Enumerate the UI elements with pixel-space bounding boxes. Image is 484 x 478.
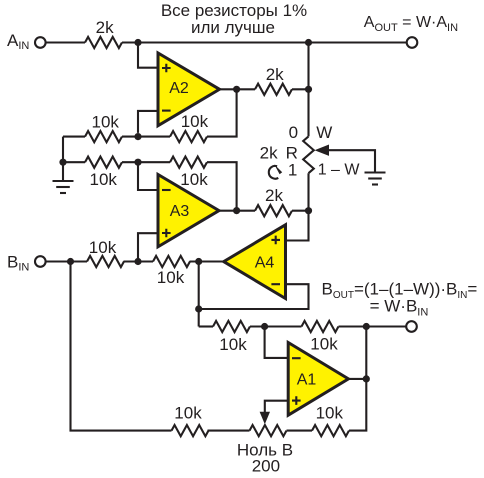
node 2k to pot bottom (305, 207, 312, 214)
terminal A_IN (35, 37, 46, 48)
svg-text:A4: A4 (255, 254, 275, 271)
resistor 2k A2 output to pot top (255, 84, 292, 95)
svg-text:1: 1 (288, 161, 297, 180)
wire A3 + input down to B_IN row (138, 233, 158, 261)
node A2 minus net (134, 133, 141, 140)
wire to B_OUT terminal (339, 325, 407, 327)
wire A4 - feedback loop (199, 284, 309, 309)
wire to A4 output node (190, 260, 224, 262)
wire wiper to ground (329, 150, 376, 172)
svg-text:10k: 10k (91, 112, 119, 131)
svg-text:2k: 2k (260, 143, 278, 162)
node A1 output (363, 375, 370, 382)
wire row2 left (63, 161, 85, 163)
wire left ground leg (62, 137, 64, 181)
wire row2 middle (122, 161, 170, 163)
resistor 10k A1 feedback (302, 321, 339, 332)
op-amp A3 (158, 175, 219, 247)
resistor 2k A3 output to pot bottom (255, 205, 292, 216)
wire B_IN row middle (124, 260, 154, 262)
wire pot terminal 1 down to A4 + input (286, 173, 309, 240)
wire row1 left corner (63, 136, 85, 138)
node A4 feedback (195, 305, 202, 312)
op-amp A2 (158, 53, 220, 126)
op-amp A4 (224, 225, 286, 299)
wire A_IN to R 2k input (46, 41, 85, 43)
svg-text:= W·BIN: = W·BIN (370, 297, 429, 319)
svg-text:1 – W: 1 – W (318, 161, 361, 178)
svg-text:10k: 10k (89, 170, 117, 189)
wire node to A2 + input (138, 43, 158, 68)
node A3 minus net (134, 159, 141, 166)
resistor 10k A3 feedback (170, 157, 207, 168)
svg-text:200: 200 (252, 456, 280, 475)
svg-text:2k: 2k (265, 186, 283, 205)
wire top rail to A_OUT terminal (122, 41, 407, 43)
resistor 10k A1 input (213, 321, 250, 332)
wire A4 output down to B_OUT row (199, 262, 224, 327)
trimpot 200 body (250, 425, 287, 436)
wire A3 - input to row2 node (138, 162, 158, 190)
ground (wiper) (365, 173, 386, 185)
svg-text:10k: 10k (310, 335, 338, 354)
terminal A_OUT (407, 37, 418, 48)
resistor 10k bottom left (172, 425, 209, 436)
op-amp A1 (288, 343, 348, 416)
svg-text:A1: A1 (297, 372, 317, 389)
resistor 10k B_IN series 2 (153, 256, 190, 267)
resistor 10k bottom right (312, 425, 349, 436)
svg-text:10k: 10k (219, 335, 247, 354)
potentiometer R 2k body (303, 136, 314, 173)
wire top rail down to pot terminal 0 (307, 43, 309, 137)
wire trimpot to 10k (287, 430, 313, 432)
svg-text:или лучше: или лучше (191, 18, 275, 37)
wire A1 + input to trimpot wiper (265, 401, 288, 412)
wire B_OUT row middle (250, 325, 302, 327)
wire row2 down to A3 output (207, 162, 237, 210)
resistor 2k input (A channel) (85, 37, 122, 48)
wire A2 - input down to feedback node (138, 111, 158, 133)
node B_IN branch (67, 258, 74, 265)
wire B_IN to first 10k (46, 260, 87, 262)
svg-text:10k: 10k (181, 112, 209, 131)
node A1 minus branch (261, 323, 268, 330)
node top rail / pot branch (305, 39, 312, 46)
node 2k to pot rail (305, 86, 312, 93)
wire 2k to pot rail (292, 88, 309, 90)
svg-text:2k: 2k (96, 18, 114, 37)
wire bottom row up to B_OUT row (349, 327, 366, 431)
terminal B_OUT (406, 321, 417, 332)
wire B_IN node down and along bottom (71, 262, 172, 431)
resistor 10k A2 feedback (170, 131, 207, 142)
node ground leg (59, 159, 66, 166)
wire row1 up to A2 output (207, 89, 237, 136)
trimpot wiper arrow (260, 412, 270, 425)
svg-text:2k: 2k (266, 65, 284, 84)
svg-text:10k: 10k (180, 170, 208, 189)
wire 2k to pot rail bottom (292, 210, 309, 212)
node A4 output (195, 258, 202, 265)
resistor 10k A2 minus to ground leg (85, 131, 122, 142)
svg-text:AOUT = W·AIN: AOUT = W·AIN (364, 14, 458, 34)
rotation arrow (269, 164, 282, 179)
node B_IN row / A3 plus (134, 258, 141, 265)
wire bottom row middle (208, 430, 250, 432)
wire B_OUT row left (199, 325, 213, 327)
ground (left) (53, 181, 74, 193)
svg-text:10k: 10k (316, 403, 344, 422)
node A3 output (233, 207, 240, 214)
node top rail / A2 input branch (134, 39, 141, 46)
resistor 10k B_IN series 1 (87, 256, 124, 267)
svg-text:10k: 10k (157, 268, 185, 287)
svg-text:0: 0 (289, 123, 298, 142)
svg-text:BIN: BIN (7, 252, 29, 273)
wire node down to A1 - input (265, 327, 289, 358)
svg-text:10k: 10k (174, 404, 202, 423)
wire A3 output (219, 210, 255, 212)
svg-text:A3: A3 (170, 203, 190, 220)
wire row1 middle (122, 136, 170, 138)
svg-text:10k: 10k (89, 238, 117, 257)
svg-text:W: W (316, 123, 332, 142)
wire A2 output (220, 88, 256, 90)
svg-text:A2: A2 (169, 80, 189, 97)
wire A1 output (348, 378, 366, 380)
resistor 10k A3 minus to ground leg (85, 157, 122, 168)
svg-text:AIN: AIN (7, 31, 29, 52)
node B_OUT row / A1 feedback (363, 323, 370, 330)
terminal B_IN (35, 256, 46, 267)
potentiometer wiper arrow (315, 145, 330, 156)
node A2 output (233, 86, 240, 93)
